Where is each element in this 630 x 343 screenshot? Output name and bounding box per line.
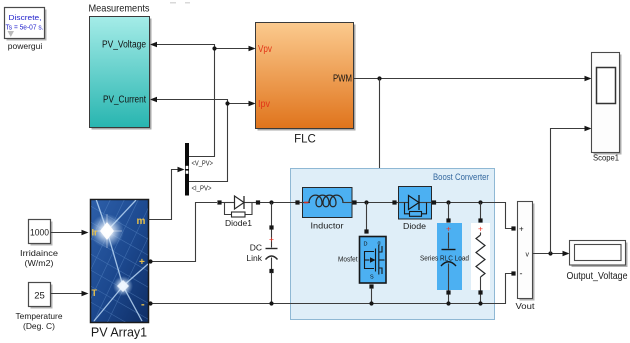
block Measurements bbox=[90, 17, 152, 130]
svg-text:Measurements: Measurements bbox=[89, 3, 150, 15]
Diode label bbox=[403, 221, 426, 231]
svg-text:Ir: Ir bbox=[92, 228, 99, 238]
diode D boost bbox=[392, 187, 436, 220]
node bottom junction DC link bbox=[269, 301, 273, 305]
svg-text:DC: DC bbox=[250, 243, 262, 253]
svg-text:25: 25 bbox=[34, 291, 45, 302]
svg-text:PV Array1: PV Array1 bbox=[91, 326, 147, 340]
svg-text:Irridaince: Irridaince bbox=[20, 248, 58, 258]
svg-text:m: m bbox=[137, 216, 146, 227]
controller FLC block bbox=[256, 23, 356, 131]
wire junction V to FLC Vpv bbox=[215, 46, 256, 52]
svg-text:powergui: powergui bbox=[8, 41, 43, 51]
wire 25 to T bbox=[51, 291, 89, 297]
svg-text:Ipv: Ipv bbox=[258, 99, 270, 110]
wire PV plus to Diode1 bbox=[148, 203, 217, 264]
svg-text:-: - bbox=[141, 299, 145, 311]
svg-text:<V_PV>: <V_PV> bbox=[192, 159, 214, 168]
boost converter region bbox=[291, 169, 495, 320]
constant 1000 bbox=[29, 220, 53, 246]
svg-text:Scope1: Scope1 bbox=[593, 154, 620, 163]
svg-text:Ts = 5e-07 s.: Ts = 5e-07 s. bbox=[6, 23, 44, 32]
svg-text:+: + bbox=[478, 224, 483, 234]
wire junction I to FLC Ipv bbox=[228, 101, 256, 107]
constant 25 bbox=[29, 283, 53, 309]
Measurements label bbox=[89, 3, 150, 15]
svg-text:(Deg. C): (Deg. C) bbox=[23, 321, 55, 331]
svg-text:+: + bbox=[269, 234, 274, 244]
wire junction I to Measurements PV_Current bbox=[150, 97, 228, 104]
node RLC junction top bbox=[446, 200, 450, 204]
Series RLC Load label bbox=[420, 254, 469, 263]
svg-text:Discrete,: Discrete, bbox=[9, 13, 42, 22]
node bottom junction mosfet bbox=[369, 301, 373, 305]
svg-text:Diode1: Diode1 bbox=[225, 218, 252, 228]
Scope1 label bbox=[593, 154, 620, 163]
svg-text:Series RLC Load: Series RLC Load bbox=[420, 254, 469, 263]
svg-text:S: S bbox=[370, 275, 374, 281]
svg-text:Link: Link bbox=[246, 253, 262, 263]
wire m to bus selector bbox=[149, 167, 185, 220]
bus selector bbox=[185, 143, 189, 196]
Diode1 label bbox=[225, 218, 252, 228]
wire V_PV bbox=[189, 49, 215, 157]
svg-text:-: - bbox=[520, 269, 523, 279]
svg-text:Inductor: Inductor bbox=[311, 221, 344, 231]
scope Scope1 bbox=[592, 53, 622, 155]
svg-text:Boost Converter: Boost Converter bbox=[433, 172, 489, 183]
svg-text:T: T bbox=[92, 288, 98, 298]
svg-text:FLC: FLC bbox=[294, 134, 316, 146]
mosfet Q bbox=[360, 203, 387, 304]
svg-text:Mosfet: Mosfet bbox=[338, 255, 358, 264]
svg-text:v: v bbox=[526, 252, 530, 259]
inductor L bbox=[295, 188, 356, 218]
node R junction top bbox=[478, 200, 482, 204]
wire PWM to Scope1 bbox=[354, 76, 592, 82]
I_PV label bbox=[192, 184, 212, 193]
wire PWM to Mosfet gate bbox=[377, 79, 383, 236]
resistor R load bbox=[471, 203, 490, 304]
Mosfet label bbox=[338, 255, 358, 264]
node I junction bbox=[225, 101, 229, 105]
capacitor DC Link bbox=[266, 203, 278, 304]
voltmeter Vout bbox=[511, 202, 534, 301]
Output_Voltage label bbox=[567, 271, 628, 282]
node V junction bbox=[212, 46, 216, 50]
svg-text:PV_Current: PV_Current bbox=[103, 95, 146, 106]
svg-text:+: + bbox=[519, 225, 524, 234]
node mosfet drain junction bbox=[364, 200, 368, 204]
FLC label bbox=[294, 134, 316, 146]
wire I_PV bbox=[189, 104, 228, 182]
svg-text:(W/m2): (W/m2) bbox=[25, 258, 54, 268]
load RLC C branch bbox=[437, 203, 462, 304]
stray mark top bbox=[170, 2, 190, 4]
node DC link junction bbox=[269, 200, 273, 204]
diode D1 bbox=[217, 196, 260, 217]
node display junction bbox=[548, 251, 552, 255]
node PWM junction bbox=[377, 76, 381, 80]
display Output_Voltage bbox=[570, 241, 628, 268]
wire diode to Vout plus bbox=[436, 203, 512, 229]
PV Array1 label bbox=[91, 326, 147, 340]
svg-text:<I_PV>: <I_PV> bbox=[192, 184, 212, 193]
svg-text:Vout: Vout bbox=[516, 302, 536, 311]
wire junction to Scope1 lower input bbox=[551, 126, 592, 254]
wire junction V to Measurements PV_Voltage bbox=[150, 42, 215, 49]
wire 1000 to Ir bbox=[51, 230, 89, 236]
svg-text:Output_Voltage: Output_Voltage bbox=[567, 271, 628, 282]
wire inductor to diode bbox=[357, 202, 393, 204]
svg-text:Diode: Diode bbox=[403, 221, 426, 231]
svg-text:PWM: PWM bbox=[333, 74, 352, 85]
svg-text:D: D bbox=[364, 242, 368, 248]
wire PV minus bottom rail bbox=[148, 274, 511, 306]
DC Link label bbox=[246, 243, 262, 264]
Irridaince label bbox=[20, 248, 58, 268]
powergui block bbox=[5, 8, 47, 41]
svg-text:+: + bbox=[139, 257, 145, 268]
Inductor label bbox=[311, 221, 344, 231]
svg-text:Temperature: Temperature bbox=[16, 311, 63, 321]
V_PV label bbox=[192, 159, 214, 168]
svg-text:PV_Voltage: PV_Voltage bbox=[102, 40, 146, 51]
node bottom junction RLC bbox=[446, 301, 450, 305]
wire Vout v to display bbox=[533, 251, 570, 257]
svg-text:+: + bbox=[446, 224, 451, 234]
Vout label bbox=[516, 302, 536, 311]
node bottom junction R bbox=[478, 301, 482, 305]
Temperature label bbox=[16, 311, 63, 331]
wire Diode1 to inductor bbox=[260, 202, 296, 204]
svg-text:Vpv: Vpv bbox=[258, 44, 272, 55]
svg-text:1000: 1000 bbox=[30, 228, 49, 239]
PV array block bbox=[42, 192, 170, 342]
powergui label bbox=[8, 41, 43, 51]
